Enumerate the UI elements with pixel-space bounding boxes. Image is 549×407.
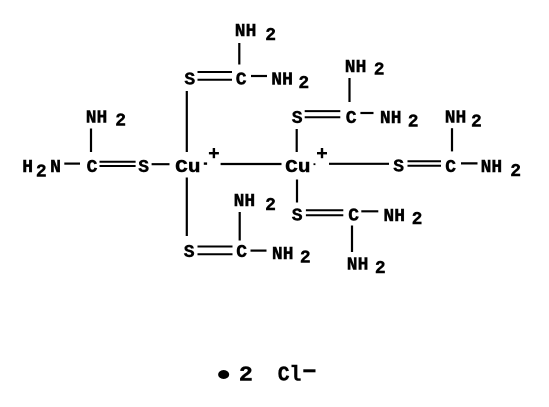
svg-text:2: 2	[510, 162, 521, 182]
svg-text:NH: NH	[272, 245, 294, 265]
svg-text:NH: NH	[445, 109, 467, 129]
svg-text:NH: NH	[235, 22, 257, 42]
svg-text:NH: NH	[271, 71, 293, 91]
svg-text:Cu: Cu	[175, 158, 200, 178]
svg-text:S: S	[184, 243, 195, 263]
svg-text:NH: NH	[347, 256, 369, 276]
svg-text:C: C	[87, 158, 98, 178]
svg-text:2: 2	[239, 365, 253, 388]
svg-text:S: S	[393, 158, 404, 178]
svg-text:C: C	[348, 207, 359, 227]
svg-text:2: 2	[300, 248, 311, 268]
svg-text:S: S	[292, 206, 303, 226]
svg-text:Cu: Cu	[285, 158, 310, 178]
svg-text:2: 2	[375, 259, 386, 279]
svg-text:C: C	[236, 71, 247, 91]
svg-text:NH: NH	[234, 192, 256, 212]
svg-text:2: 2	[115, 112, 126, 132]
svg-text:S: S	[184, 71, 195, 91]
svg-text:2: 2	[471, 112, 482, 132]
svg-text:2: 2	[265, 26, 276, 46]
svg-text:NH: NH	[383, 207, 405, 227]
svg-text:C: C	[445, 158, 456, 178]
svg-text:C: C	[346, 109, 357, 129]
svg-text:H: H	[22, 158, 33, 178]
svg-text:S: S	[138, 158, 149, 178]
svg-text:N: N	[50, 158, 61, 178]
svg-text:Cl: Cl	[278, 365, 302, 388]
svg-text:2: 2	[36, 162, 47, 182]
svg-text:2: 2	[412, 210, 423, 230]
svg-text:NH: NH	[481, 158, 503, 178]
svg-text:NH: NH	[345, 58, 367, 78]
svg-text:NH: NH	[86, 109, 108, 129]
svg-text:2: 2	[298, 74, 309, 94]
svg-text:C: C	[236, 243, 247, 263]
svg-text:2: 2	[265, 196, 276, 216]
svg-text:2: 2	[374, 61, 385, 81]
svg-text:2: 2	[408, 112, 419, 132]
svg-text:S: S	[292, 109, 303, 129]
svg-text:NH: NH	[380, 109, 402, 129]
